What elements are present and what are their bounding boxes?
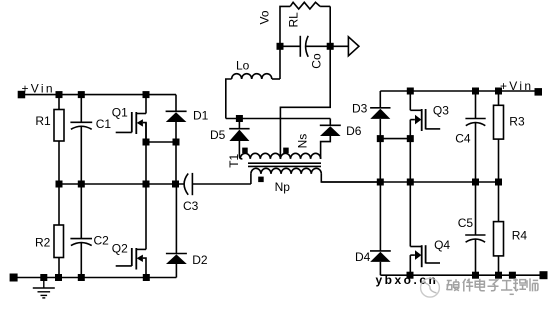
wire bottom-right rail [380, 274, 543, 276]
svg-text:C2: C2 [94, 234, 110, 248]
wire Q1 source down [145, 123, 147, 184]
node junction ground [40, 274, 47, 281]
svg-text:R4: R4 [512, 229, 528, 243]
node watermark logo circle [421, 278, 440, 297]
capacitor C2 [80, 184, 82, 239]
svg-text:R2: R2 [35, 236, 51, 250]
svg-text:Q1: Q1 [112, 106, 128, 120]
node junction C5 bottom [472, 272, 479, 279]
node junction mid Q [143, 181, 150, 188]
svg-text:R3: R3 [509, 115, 525, 129]
svg-text:C3: C3 [183, 199, 199, 213]
node junction Q2 bottom [143, 274, 150, 281]
svg-text:C1: C1 [96, 117, 112, 131]
svg-text:+Vin: +Vin [22, 82, 55, 96]
node junction R3 top [495, 88, 502, 95]
transistor Q1 [145, 95, 147, 114]
capacitor C4 [475, 91, 477, 119]
svg-text:Vo: Vo [258, 10, 272, 24]
resistor RL [290, 2, 320, 9]
node dot Ns right [283, 148, 289, 154]
node junction R1 top [56, 91, 63, 98]
capacitor Co [280, 45, 300, 47]
wire Lo to Vo node [279, 46, 281, 79]
node junction Vo left [277, 43, 284, 50]
node junction mid C [78, 181, 85, 188]
transistor Q2 [145, 184, 147, 249]
capacitor C5 [475, 182, 477, 235]
node junction mid Q3/Q4 [407, 179, 414, 186]
transformer T1 primary winding Np [251, 168, 321, 174]
node junction Q3 top [407, 88, 414, 95]
svg-text:D5: D5 [210, 128, 226, 142]
node +Vin right terminal [535, 88, 543, 96]
node dot Np [258, 177, 264, 183]
diode D5 [238, 119, 240, 129]
svg-text:D6: D6 [346, 124, 362, 138]
wire Np left lead [250, 174, 252, 184]
node junction mid D [172, 181, 179, 188]
ground [33, 278, 55, 298]
diode D6 [329, 119, 331, 126]
node junction Q3 source [407, 135, 414, 142]
node junction C1 top [78, 91, 85, 98]
node junction C2 bottom [78, 274, 85, 281]
wire Vo loop right [329, 6, 331, 46]
resistor R2 [58, 184, 60, 225]
node junction Q4 bottom [407, 272, 414, 279]
transformer T1 secondary winding Ns [240, 153, 320, 159]
wire rectified node rail [226, 118, 330, 120]
inductor Lo [226, 79, 232, 119]
svg-text:D2: D2 [192, 253, 208, 267]
node watermark chinese text [447, 278, 538, 294]
wire mid-right rail [321, 181, 502, 183]
node junction mid R3/R4 [495, 179, 502, 186]
svg-text:C4: C4 [455, 132, 471, 146]
svg-text:Q3: Q3 [433, 104, 449, 118]
node junction D1 anode [173, 139, 180, 146]
node junction extra [509, 272, 516, 279]
svg-text:Lo: Lo [236, 59, 250, 73]
wire Q1-D1 link [146, 141, 176, 143]
node junction mid D3/D4 [377, 179, 384, 186]
node junction D3 anode [377, 135, 384, 142]
node junction D5 cathode [236, 115, 243, 122]
svg-text:Q2: Q2 [112, 242, 128, 256]
svg-text:Np: Np [275, 180, 291, 194]
wire mid-left rail [59, 183, 184, 185]
capacitor C3 [184, 174, 188, 195]
wire D3-Q3 link [380, 138, 410, 140]
diode D3 [379, 91, 381, 108]
node +Vin left terminal [18, 91, 26, 99]
wire Vo loop left [280, 6, 290, 46]
wire top-left rail [25, 94, 176, 96]
node junction Vo right [327, 43, 334, 50]
node junction Q1 source [143, 139, 150, 146]
diode D4 [379, 182, 381, 251]
svg-text:Co: Co [310, 53, 324, 69]
svg-text:RL: RL [287, 12, 301, 28]
wire top-right rail [380, 90, 538, 92]
transistor Q4 [409, 182, 411, 247]
wire Np right lead [321, 174, 380, 182]
wire bottom-left rail [14, 277, 177, 279]
transistor Q3 [409, 91, 411, 110]
capacitor C1 [80, 95, 82, 123]
diode D2 [175, 184, 177, 254]
node bottom-right terminal [540, 271, 548, 279]
svg-text:R1: R1 [35, 114, 51, 128]
resistor R3 [498, 91, 500, 105]
node dot Ns left [242, 148, 248, 154]
node junction mid C4/C5 [472, 179, 479, 186]
diode D1 [175, 95, 177, 112]
svg-text:D3: D3 [352, 102, 368, 116]
transformer T1 core [248, 162, 321, 164]
svg-text:D1: D1 [193, 109, 209, 123]
svg-text:D4: D4 [355, 250, 371, 264]
resistor R1 [58, 95, 60, 110]
node junction Q1 drain [143, 91, 150, 98]
node output arrow [348, 37, 359, 56]
node junction R2 bottom [55, 274, 62, 281]
svg-text:Ns: Ns [296, 134, 310, 149]
svg-text:C5: C5 [458, 216, 474, 230]
node bottom-left terminal [10, 274, 18, 282]
wire Vo return to center tap [280, 46, 330, 159]
node junction C4 top [472, 88, 479, 95]
svg-text:T1: T1 [227, 153, 241, 167]
svg-text:Q4: Q4 [434, 238, 450, 252]
resistor R4 [498, 182, 500, 222]
node junction mid R [56, 181, 63, 188]
node junction R4 bottom [495, 272, 502, 279]
